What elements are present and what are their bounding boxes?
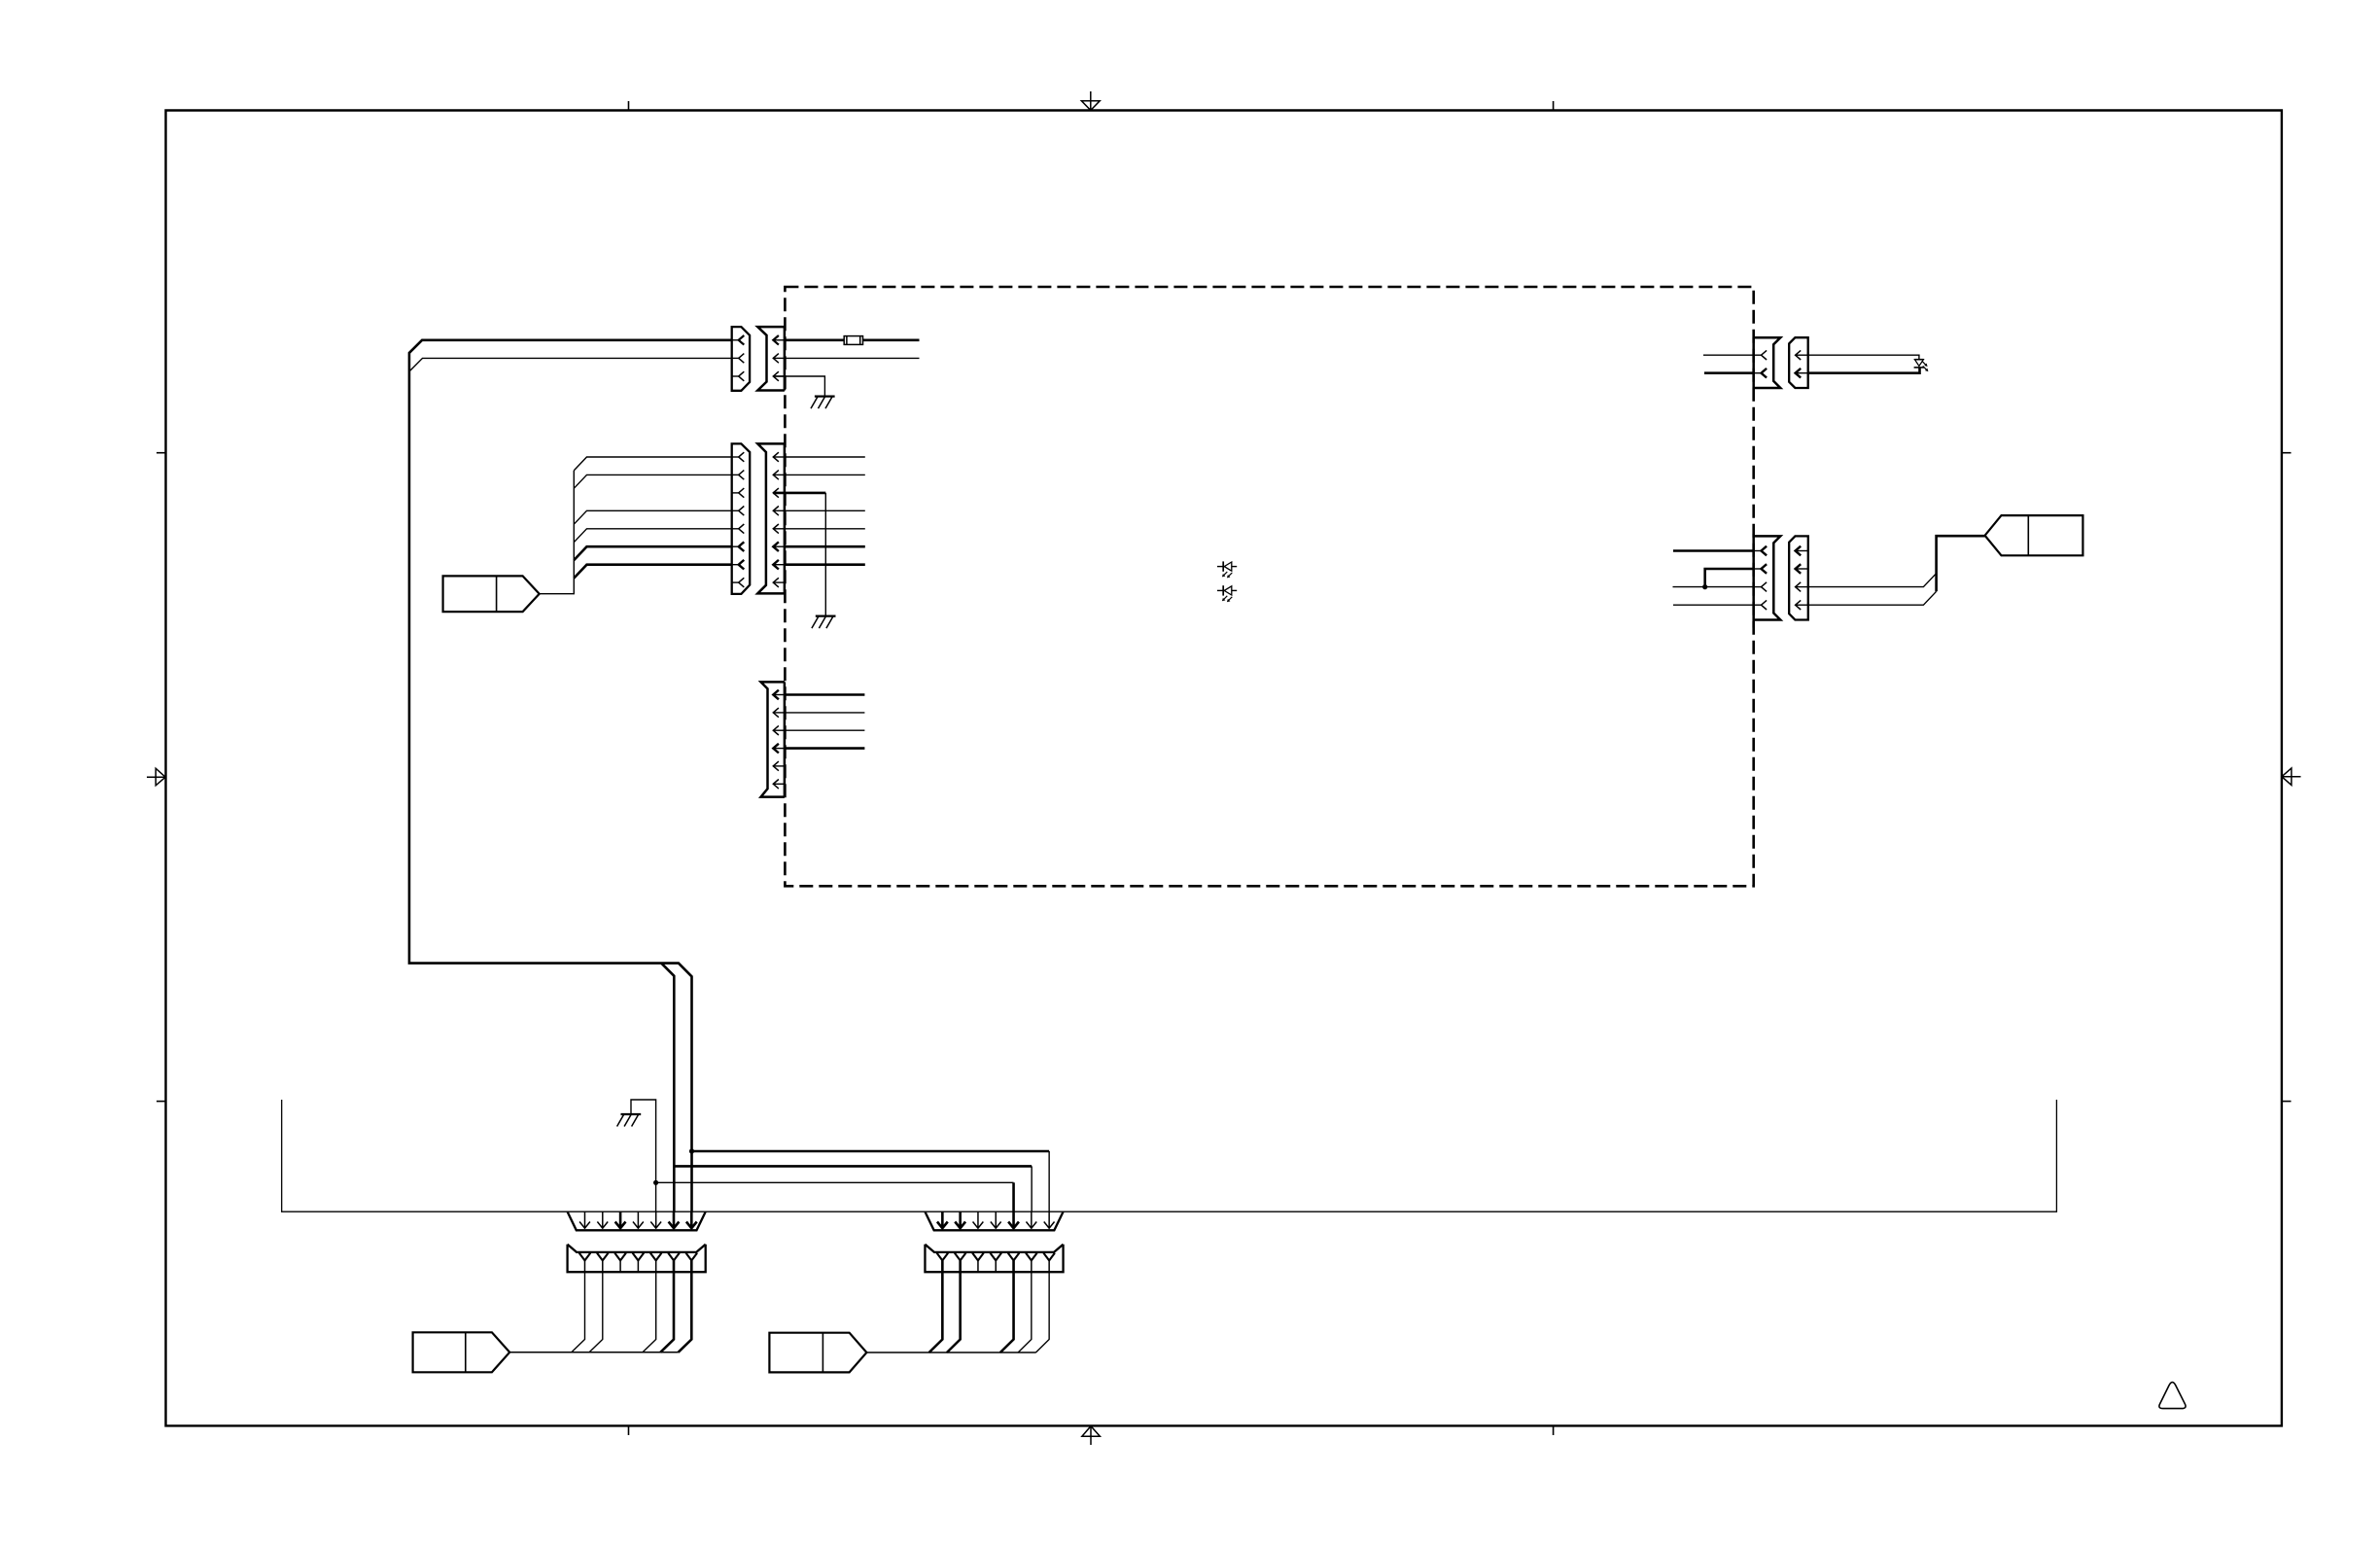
wire CN5 pin2 jog to pin3 net <box>1705 569 1754 587</box>
connector CN7 top socket shell <box>925 1211 1063 1230</box>
wire CN7 bottom pin 7 to flag bus <box>1035 1272 1049 1352</box>
connector CN6 bottom pin 4 <box>633 1253 645 1261</box>
wire CN6 pin7 to CN7 pin7 <box>692 1150 1050 1153</box>
connector CN7 bottom pin 4 <box>990 1253 1001 1261</box>
connector CN7 bottom pin 1 <box>937 1253 949 1261</box>
connector CN5 plug pins <box>1796 550 1808 552</box>
junction on CN6 pin7 wire <box>689 1148 694 1153</box>
wire CN3 pin2 free end <box>785 712 865 714</box>
connector CN7 top pin 7 <box>1048 1211 1050 1228</box>
connector CN7 bottom plug shell <box>925 1245 1063 1273</box>
connector CN3 socket pins <box>773 694 785 696</box>
connector CN6 bottom pin 3 <box>614 1253 626 1261</box>
wire CN6 bottom pin 5 to flag bus <box>643 1272 656 1352</box>
wire CN5 pin1 stub <box>1673 549 1754 552</box>
wire CN1 pin3 to ground <box>773 376 824 397</box>
ground at CN1 <box>815 395 835 397</box>
connector CN6 bottom pin 6 <box>668 1253 680 1261</box>
wire CN6 pin5 to CN7 pin5 <box>656 1181 1014 1183</box>
connector CN7 top pin 3 <box>977 1211 979 1228</box>
bus entry to CN2 pin7 <box>574 565 731 579</box>
connector CN4 socket pins <box>1754 354 1762 356</box>
wire CN3 pin1 free end <box>785 693 865 696</box>
wire CN6 bottom pin 1 to flag bus <box>572 1272 585 1352</box>
junction on CN5 pin3 wire <box>1702 584 1707 589</box>
connector CN2 plug housing <box>732 443 751 594</box>
wire CN6 pin6 to CN7 pin6 <box>674 1165 1032 1168</box>
connector CN6 top pin 3 <box>619 1211 622 1228</box>
connector CN6 top pin 6 <box>673 1211 676 1228</box>
connector CN6 bottom pin 2 <box>597 1253 609 1261</box>
ground at CN6 feed <box>621 1113 642 1115</box>
wire CN6 bottom pin 7 to flag bus <box>679 1272 692 1352</box>
wire ground to CN6 pin5 <box>631 1100 656 1211</box>
connector CN6 top socket shell <box>568 1211 706 1230</box>
connector CN6 bottom pin 1 <box>579 1253 591 1261</box>
wire CN2 pin2 free end <box>785 474 865 475</box>
connector CN6 bottom plug shell <box>568 1245 706 1273</box>
bus entry to CN2 pin2 <box>574 474 731 488</box>
wire CN4 pin1 to LED D1 anode <box>1808 355 1919 360</box>
wire CN1 pin2 joining bus <box>410 358 732 370</box>
wire CN2 pin1 free end <box>785 456 865 458</box>
bus entry to CN2 pin1 <box>574 457 731 471</box>
connector CN5 plug housing <box>1789 536 1808 619</box>
wire bus from CN1 pin1 down to bottom connector <box>409 340 732 1211</box>
wire CN2 pin4 free end <box>785 509 865 511</box>
connector CN7 bottom pin 3 <box>972 1253 984 1261</box>
connector CN3 socket bracket <box>761 682 785 796</box>
connector CN6 top pin 2 <box>602 1211 604 1228</box>
revision triangle mark <box>2159 1383 2186 1409</box>
wire CN2 pin5 free end <box>785 528 865 530</box>
net flag label at CN5 <box>1985 515 2083 555</box>
connector CN6 top pin 7 <box>690 1211 693 1228</box>
wire CN7 bottom pin 1 to flag bus <box>929 1272 943 1352</box>
bus entry to CN2 pin5 <box>574 529 731 543</box>
connector CN7 bottom pin 6 <box>1026 1253 1037 1261</box>
net flag label at CN7 <box>769 1333 866 1373</box>
connector CN5 socket bracket <box>1754 536 1781 619</box>
wire CN4 pin2 to LED D1 cathode <box>1808 368 1920 373</box>
connector CN7 top pin 5 <box>1012 1211 1015 1228</box>
connector CN4 plug housing <box>1789 337 1808 388</box>
wire CN1 pin2 free end <box>785 357 920 359</box>
connector CN1 socket pins <box>773 339 785 341</box>
wire CN5 pin3 stub <box>1673 586 1754 588</box>
wire CN3 pin3 free end <box>785 729 865 731</box>
connector CN6 bottom pin 7 <box>686 1253 698 1261</box>
wire CN6 bottom pin 6 to flag bus <box>660 1272 674 1352</box>
wire CN6 bottom pin 2 to flag bus <box>589 1272 603 1352</box>
LED D2 <box>1217 566 1223 568</box>
junction on CN6 pin5 wire <box>653 1180 658 1185</box>
net flag label at CN6 <box>413 1332 510 1372</box>
bus entry to CN2 pin4 <box>574 510 731 524</box>
net flag label at CN2 <box>443 576 540 612</box>
connector CN6 bottom pin 5 <box>650 1253 662 1261</box>
wire CN5 pin4 stub <box>1673 604 1754 606</box>
connector CN1 plug pins <box>732 339 739 341</box>
wire CN4 pin2 stub <box>1704 371 1754 374</box>
ground at CN2 <box>816 614 836 616</box>
wire long bottom net with end stubs <box>282 1100 2057 1211</box>
connector CN7 bottom pin 5 <box>1008 1253 1020 1261</box>
wire CN7 bottom pin 2 to flag bus <box>947 1272 961 1352</box>
wire CN7 bottom pin 6 to flag bus <box>1018 1272 1032 1352</box>
connector CN2 socket pins <box>773 456 785 458</box>
connector CN6 top pin 4 <box>637 1211 639 1228</box>
wire flag bus at CN7 <box>866 1352 1035 1353</box>
wire flag to CN2 bus <box>540 471 575 594</box>
connector CN1 socket bracket <box>757 327 785 390</box>
connector CN1 plug housing <box>732 327 750 391</box>
wire CN2 pin3 to ground <box>773 492 825 495</box>
connector CN2 plug pins <box>732 456 739 458</box>
wire flag bus at CN6 <box>509 1352 679 1353</box>
dashed module outline <box>785 287 1753 886</box>
wire CN2 pin6 free end <box>785 545 865 548</box>
bus entry to CN2 pin6 <box>574 546 731 560</box>
wire CN4 pin1 stub <box>1703 354 1754 356</box>
connector CN5 socket pins <box>1754 550 1762 552</box>
wire CN7 bottom pin 5 to flag bus <box>1000 1272 1014 1352</box>
connector CN7 top pin 2 <box>959 1211 962 1228</box>
wire CN3 pin4 free end <box>785 747 865 750</box>
connector CN7 top pin 1 <box>941 1211 944 1228</box>
connector CN7 top pin 6 <box>1031 1211 1032 1228</box>
LED D3 <box>1217 589 1223 591</box>
wire CN5 pin4 to bus <box>1808 591 1937 605</box>
wire bus branch to bottom connector pin6 <box>661 964 674 1212</box>
wire CN2 pin7 free end <box>785 563 865 566</box>
connector CN7 bottom pin 2 <box>955 1253 966 1261</box>
bus to right net flag <box>1937 536 1985 591</box>
connector CN4 plug pins <box>1796 354 1808 356</box>
connector CN4 socket bracket <box>1754 337 1781 388</box>
fuse F1 <box>844 336 862 345</box>
wire CN1 pin1 to fuse and free end <box>785 338 920 341</box>
wire CN5 pin3 to bus <box>1808 574 1937 587</box>
connector CN7 bottom pin 7 <box>1043 1253 1055 1261</box>
connector CN7 top pin 4 <box>995 1211 997 1228</box>
LED D1 <box>1914 359 1923 361</box>
connector CN6 top pin 5 <box>655 1211 657 1228</box>
connector CN2 socket bracket <box>757 443 785 593</box>
connector CN6 top pin 1 <box>584 1211 586 1228</box>
